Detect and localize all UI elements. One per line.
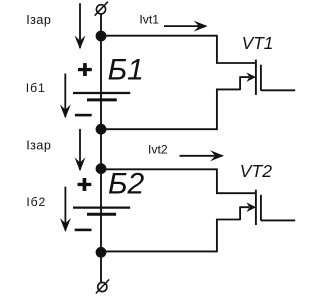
wire VT2 source out right — [261, 219, 295, 221]
wire VT2 gate to node D — [101, 220, 240, 252]
wire VT1 gate to node B — [101, 89, 240, 129]
battery B2 — [73, 208, 130, 215]
terminal top (crossed circle) — [95, 2, 108, 16]
label VT1 — [242, 33, 274, 53]
label B2 — [108, 168, 145, 201]
transistor VT1 (MOSFET) — [240, 60, 261, 95]
arrow Ib2 (down) — [60, 187, 71, 232]
wire top rail: node A to VT1 drain — [101, 36, 255, 63]
label Ib2 — [26, 195, 46, 209]
label plus B2 — [78, 178, 92, 191]
svg-text:Б2: Б2 — [108, 168, 145, 201]
svg-text:Б1: Б1 — [108, 54, 144, 87]
svg-text:VT1: VT1 — [242, 33, 274, 53]
arrow Ivt2 (right) — [180, 150, 224, 161]
arrow Ib1 (down) — [60, 74, 71, 119]
svg-text:VT2: VT2 — [240, 161, 272, 181]
label minus B1 — [75, 114, 92, 117]
label minus B2 — [75, 229, 92, 232]
label Ivt2 — [148, 142, 168, 156]
wire rail node C to VT2 drain — [101, 169, 255, 193]
svg-text:Iзар: Iзар — [26, 13, 51, 27]
label VT2 — [240, 161, 272, 181]
node B (between B1 and B2, VT1 gate return) — [96, 124, 107, 135]
svg-text:Iб2: Iб2 — [26, 195, 46, 209]
node A (top, bus to VT1 drain rail) — [96, 31, 107, 42]
wire main vertical bus — [100, 14, 102, 282]
terminal bottom (crossed circle) — [96, 279, 109, 293]
label Ib1 — [26, 81, 46, 95]
wire VT1 source out right — [261, 89, 295, 91]
node C (B2 plus, VT2 drain rail) — [96, 163, 107, 174]
svg-text:Ivt2: Ivt2 — [148, 142, 168, 156]
battery B1 — [73, 93, 130, 100]
label B1 — [108, 54, 144, 87]
svg-text:Ivt1: Ivt1 — [139, 13, 159, 27]
arrow Ivt1 (right) — [164, 21, 208, 32]
node D (bottom, VT2 gate return) — [96, 247, 107, 258]
arrow Izar top (down) — [75, 3, 86, 49]
transistor VT2 (MOSFET) — [240, 190, 261, 225]
label plus B1 — [78, 63, 92, 76]
label Izar top — [26, 13, 51, 27]
label Ivt1 — [139, 13, 159, 27]
arrow Izar lower (down) — [75, 129, 86, 171]
svg-text:Iб1: Iб1 — [26, 81, 46, 95]
svg-text:Iзар: Iзар — [26, 139, 51, 153]
label Izar lower — [26, 139, 51, 153]
